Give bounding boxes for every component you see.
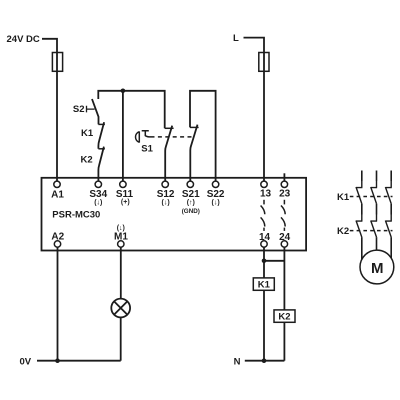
wire L to fuse F2 bbox=[244, 38, 265, 182]
svg-text:N: N bbox=[234, 356, 241, 367]
motor M bbox=[360, 250, 394, 284]
svg-text:M: M bbox=[371, 260, 384, 277]
mechanical link dashed K1 bbox=[350, 196, 393, 198]
svg-text:(↓): (↓) bbox=[94, 199, 102, 206]
svg-text:S12: S12 bbox=[157, 189, 175, 200]
svg-text:S22: S22 bbox=[207, 189, 225, 200]
contact S21 (NO contact) bbox=[190, 125, 199, 182]
terminal S12 bbox=[162, 181, 168, 187]
svg-text:S34: S34 bbox=[89, 189, 107, 200]
pushbutton S1 actuator bbox=[136, 131, 151, 143]
wire 24 down to K2 coil bbox=[283, 247, 285, 310]
terminal M1 bbox=[118, 241, 124, 247]
svg-text:0V: 0V bbox=[20, 356, 32, 367]
node junction A2/0V bbox=[55, 358, 60, 363]
terminal 14 bbox=[261, 241, 267, 247]
terminal 13 bbox=[261, 181, 267, 187]
coil K1 bbox=[253, 278, 274, 290]
terminal A1 bbox=[54, 181, 60, 187]
contact K2 (NC aux contact in chain) bbox=[98, 147, 105, 182]
wire A2 to 0V rail bbox=[57, 247, 59, 361]
svg-text:(+): (+) bbox=[121, 199, 130, 206]
svg-text:S1: S1 bbox=[141, 144, 153, 155]
node junction 14/24 jumper bbox=[262, 259, 267, 264]
wire S11 column bbox=[122, 91, 124, 182]
wire K2 contacts to motor bbox=[362, 237, 391, 259]
terminal 24 bbox=[281, 241, 287, 247]
svg-text:24V DC: 24V DC bbox=[7, 34, 40, 45]
svg-text:PSR-MC30: PSR-MC30 bbox=[52, 209, 100, 220]
svg-text:13: 13 bbox=[260, 189, 272, 200]
svg-text:K1: K1 bbox=[337, 192, 350, 203]
wire 0V rail bbox=[37, 360, 121, 362]
svg-text:(↑): (↑) bbox=[187, 199, 195, 206]
fuse F2 bbox=[259, 53, 269, 72]
svg-text:K2: K2 bbox=[81, 154, 93, 165]
lamp H1 indicator bbox=[111, 299, 130, 318]
wire top rail (S2 chain / S11 / S12) bbox=[98, 91, 164, 129]
wire N rail bbox=[245, 360, 285, 362]
svg-text:A2: A2 bbox=[51, 231, 64, 242]
node junction S11 on top rail bbox=[121, 89, 126, 94]
contact K2 motor (3-phase NO) bbox=[356, 215, 392, 238]
coil K2 bbox=[274, 310, 295, 322]
wire motor phase feeds bbox=[362, 171, 391, 182]
terminal S11 bbox=[120, 181, 126, 187]
svg-text:K2: K2 bbox=[278, 312, 290, 323]
wire lamp to 0V rail bbox=[120, 317, 122, 360]
wire between K1 and K2 motor contacts bbox=[362, 204, 391, 215]
wire jumper 14-24 bbox=[264, 260, 284, 262]
terminal S21 bbox=[187, 181, 193, 187]
contact 23-24 internal (two NO contacts in series) bbox=[281, 200, 285, 231]
switch S2 (NC contact) bbox=[87, 99, 99, 124]
svg-text:L: L bbox=[233, 33, 239, 44]
wire K2 coil to N rail bbox=[283, 322, 285, 360]
svg-text:M1: M1 bbox=[114, 231, 128, 242]
contact K1 (NC aux contact in chain) bbox=[98, 122, 105, 149]
relay body PSR-MC30 bbox=[42, 178, 307, 251]
wire bracket S21-S22 bbox=[190, 91, 216, 182]
svg-text:K1: K1 bbox=[258, 280, 271, 291]
contact 13-14 internal (two NO contacts in series) bbox=[261, 200, 265, 231]
node junction K1/N bbox=[262, 358, 267, 363]
wire M1 to lamp bbox=[120, 247, 122, 298]
svg-text:(↓): (↓) bbox=[212, 199, 220, 206]
svg-text:(GND): (GND) bbox=[182, 208, 200, 215]
contact S12 (NO reset contact) bbox=[165, 126, 174, 182]
svg-text:14: 14 bbox=[259, 232, 271, 243]
svg-text:S21: S21 bbox=[182, 189, 200, 200]
svg-text:24: 24 bbox=[279, 232, 291, 243]
terminal S22 bbox=[212, 181, 218, 187]
svg-text:(↓): (↓) bbox=[162, 199, 170, 206]
wire 24VDC feed to fuse F1 bbox=[42, 39, 57, 182]
svg-text:S2: S2 bbox=[73, 104, 85, 115]
svg-text:(↓): (↓) bbox=[117, 225, 125, 232]
fuse F1 bbox=[52, 53, 62, 72]
svg-text:23: 23 bbox=[279, 189, 291, 200]
mechanical link dashed K2 bbox=[350, 230, 393, 232]
terminal 23 bbox=[281, 181, 287, 187]
terminal A2 bbox=[54, 241, 60, 247]
svg-text:K2: K2 bbox=[337, 226, 349, 237]
wire stub terminal 23 bbox=[283, 173, 285, 181]
mechanical link dashed S1 to contacts bbox=[151, 136, 194, 138]
svg-text:K1: K1 bbox=[81, 128, 94, 139]
svg-text:A1: A1 bbox=[51, 190, 64, 201]
terminal S34 bbox=[95, 181, 101, 187]
contact K1 motor (3-phase NO) bbox=[356, 181, 392, 204]
wire 14 to N rail bbox=[263, 247, 265, 361]
